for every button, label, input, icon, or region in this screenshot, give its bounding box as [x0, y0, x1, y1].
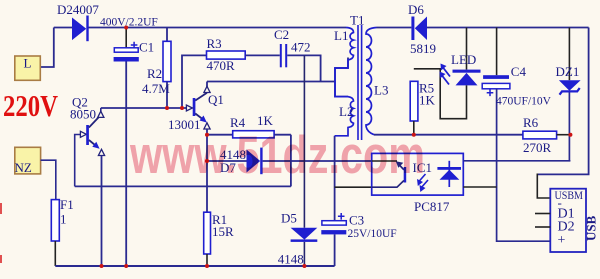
transistor Q1 13001 [168, 82, 224, 133]
wire: Q2 base feedback line y186.4 [75, 185, 291, 187]
capacitor C3 [321, 136, 396, 266]
wire: Q1 emitter column [206, 129, 208, 212]
svg-text:D6: D6 [408, 2, 424, 17]
USB connector [535, 189, 599, 252]
diode D6 [408, 2, 436, 56]
svg-text:R3: R3 [207, 36, 222, 51]
wire: base drive line y108 [101, 107, 192, 109]
svg-text:220V: 220V [3, 88, 58, 123]
wire: right edge to USB minus [537, 28, 588, 175]
diode D24007 [57, 2, 99, 41]
diode D5 [278, 55, 318, 266]
svg-text:D24007: D24007 [57, 2, 99, 17]
svg-text:R6: R6 [523, 115, 539, 130]
junction bus-R1 [205, 264, 209, 268]
svg-text:+: + [558, 233, 566, 248]
wire: C1 down to bottom bus [125, 62, 127, 267]
capacitor C4 [482, 28, 551, 242]
svg-text:PC817: PC817 [414, 199, 450, 214]
svg-text:470R: 470R [207, 58, 236, 73]
svg-text:C3: C3 [349, 213, 364, 228]
resistor R5 [410, 81, 435, 135]
svg-text:L: L [24, 56, 32, 71]
capacitor C1 [114, 28, 155, 62]
wire: L box to rail [40, 28, 54, 68]
wire: C3 to PC817 pin2 [335, 186, 372, 188]
svg-text:D5: D5 [281, 211, 297, 226]
zener DZ1 [556, 28, 581, 161]
wire: bottom bus [55, 265, 334, 267]
svg-text:470UF/10V: 470UF/10V [496, 96, 552, 108]
transformer T1 core [358, 25, 362, 140]
wire: NZ to F1 [41, 160, 56, 199]
mains terminal NZ [15, 147, 41, 175]
svg-text:C1: C1 [139, 40, 154, 55]
junction R5 bottom [412, 133, 416, 137]
junction rail-C1 [124, 26, 128, 30]
svg-text:4148: 4148 [278, 252, 304, 267]
svg-text:472: 472 [291, 40, 311, 55]
junction dots (drawn last) [100, 26, 573, 269]
wire: top rail primary [54, 27, 346, 29]
svg-text:F1: F1 [60, 197, 74, 212]
resistor R2 [142, 28, 171, 109]
winding L3 [366, 28, 388, 135]
wire: PC817 pin4 to DZ1 [463, 160, 570, 162]
junction bus-D5 [302, 264, 306, 268]
svg-text:5819: 5819 [410, 41, 436, 56]
wire: R3 drop [182, 55, 207, 108]
svg-text:1: 1 [60, 212, 67, 227]
svg-text:T1: T1 [350, 13, 364, 28]
junction D7 left [205, 159, 209, 163]
svg-text:www.51dz.com: www.51dz.com [129, 126, 425, 185]
wire: output return y135 [374, 134, 523, 136]
fuse F1 [51, 197, 73, 266]
resistor R4 [207, 113, 291, 138]
svg-text:400V/2.2UF: 400V/2.2UF [100, 17, 158, 29]
winding L1 [334, 28, 354, 97]
wire: PC817 pin3 to C4 column [463, 186, 496, 188]
mains terminal L [15, 56, 41, 81]
transistor Q2 8050 [70, 95, 105, 187]
svg-text:R2: R2 [147, 66, 162, 81]
svg-text:270R: 270R [523, 140, 552, 155]
svg-text:8050: 8050 [70, 107, 96, 122]
svg-text:L1: L1 [334, 28, 348, 43]
junction bus-Q2e [100, 264, 104, 268]
wire: R3 to C2 [245, 54, 280, 56]
svg-text:L3: L3 [374, 83, 388, 98]
svg-text:DZ1: DZ1 [556, 64, 580, 79]
svg-text:NZ: NZ [15, 160, 32, 175]
optocoupler IC1 PC817 [372, 153, 464, 214]
svg-text:USB: USB [584, 215, 599, 241]
edge artifact red strips [0, 203, 2, 214]
svg-text:1K: 1K [419, 93, 436, 108]
resistor R3 [207, 36, 246, 73]
capacitor C2 [274, 27, 311, 67]
wire: secondary top rail [377, 27, 412, 29]
junction R2-base line [165, 106, 169, 110]
winding L2 [335, 97, 354, 136]
junction R6 right [568, 133, 572, 137]
wire: collector line y81.5 to winding tap [207, 81, 335, 83]
wire: L1 bottom / L2 top tap jog [335, 58, 348, 97]
svg-text:25V/10UF: 25V/10UF [348, 228, 397, 240]
LED indicator [414, 28, 481, 119]
junction bus-C1 [124, 264, 128, 268]
wire: R4 right drop [290, 135, 292, 187]
wire: Q2 emitter column [101, 156, 103, 267]
svg-text:Q1: Q1 [208, 92, 224, 107]
junction R4 left [205, 133, 209, 137]
diode D7 [207, 147, 263, 175]
svg-text:L2: L2 [339, 104, 353, 119]
svg-text:C2: C2 [274, 27, 289, 42]
svg-text:4.7M: 4.7M [142, 81, 170, 96]
resistor R1 [204, 212, 234, 266]
wire: D7 to PC817 pin1 [263, 160, 372, 162]
svg-text:C4: C4 [511, 64, 527, 79]
resistor R6 [523, 115, 571, 155]
svg-text:LED: LED [451, 52, 476, 67]
wire: C2 to tap [287, 55, 320, 81]
svg-text:15R: 15R [212, 224, 234, 239]
junction R3drop-base line [180, 106, 184, 110]
